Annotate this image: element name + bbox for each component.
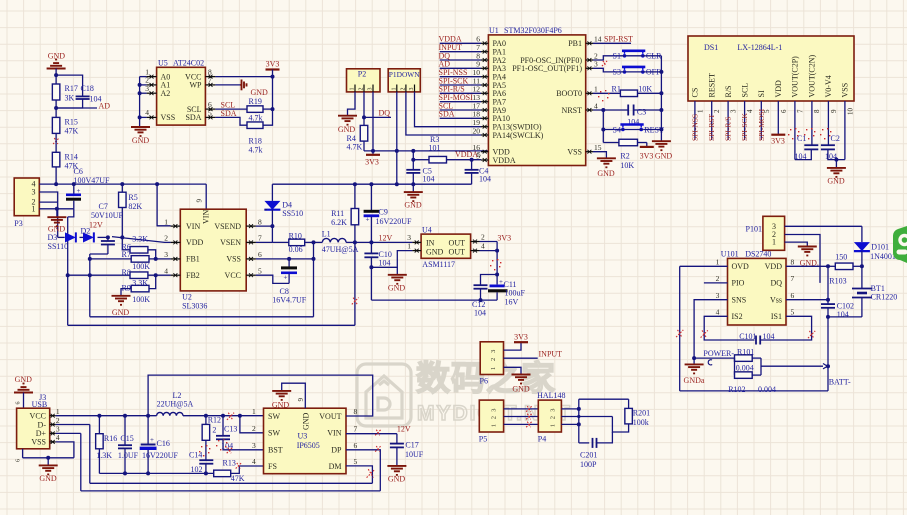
node	[312, 257, 316, 261]
svg-text:8: 8	[258, 217, 262, 226]
svg-text:S1: S1	[613, 51, 621, 60]
node DQ	[362, 115, 366, 119]
svg-text:AT24C02: AT24C02	[173, 59, 204, 68]
wire SPI-RST stub	[593, 42, 631, 44]
no-ERC marker	[375, 430, 381, 436]
svg-text:3: 3	[491, 408, 498, 411]
svg-text:1.0UF: 1.0UF	[118, 451, 139, 460]
ground P3	[56, 209, 58, 217]
resistor R16	[98, 416, 100, 434]
wire S1 row	[593, 56, 622, 60]
connector P3	[14, 178, 39, 216]
svg-text:FS: FS	[268, 462, 277, 471]
wire R3 to VDDA	[447, 159, 482, 161]
node	[479, 298, 483, 302]
svg-text:GND: GND	[827, 177, 845, 186]
svg-text:GND: GND	[112, 308, 130, 317]
resistor R3	[429, 156, 447, 163]
node	[411, 149, 415, 153]
node	[826, 364, 830, 368]
wire OVD vertical	[679, 266, 681, 391]
svg-text:BT1: BT1	[871, 284, 885, 293]
ground C17	[387, 465, 406, 467]
node	[411, 182, 415, 186]
svg-text:9: 9	[830, 109, 838, 113]
svg-text:PA14(SWCLK): PA14(SWCLK)	[493, 131, 544, 140]
wire P3 pin4	[39, 183, 56, 185]
svg-text:P1DOWN: P1DOWN	[389, 70, 420, 79]
svg-text:9: 9	[196, 199, 204, 203]
wire S3 row	[593, 68, 622, 72]
wire SW2	[240, 416, 264, 433]
no-ERC marker	[352, 298, 359, 305]
wire DQ stub	[364, 116, 391, 118]
no-ERC marker	[676, 330, 683, 337]
node	[54, 182, 58, 186]
svg-text:100P: 100P	[580, 460, 597, 469]
svg-text:C18: C18	[81, 84, 94, 93]
svg-text:SL3036: SL3036	[182, 302, 207, 311]
wire R2 row	[603, 142, 619, 144]
svg-text:1: 1	[491, 424, 498, 427]
wire gnd link U4	[371, 251, 412, 268]
svg-text:P5: P5	[479, 435, 487, 444]
svg-text:VSS: VSS	[841, 83, 850, 98]
svg-text:SDA: SDA	[439, 110, 455, 119]
capacitor C201	[579, 442, 589, 444]
svg-text:R103: R103	[829, 277, 846, 286]
svg-text:VDD: VDD	[765, 262, 783, 271]
svg-text:1: 1	[772, 238, 776, 247]
ground top-left	[47, 68, 66, 70]
svg-text:101: 101	[429, 143, 441, 152]
node	[395, 149, 399, 153]
svg-text:7: 7	[354, 425, 358, 434]
capacitor C102	[827, 266, 829, 304]
svg-text:R/S: R/S	[724, 85, 733, 97]
ground rotated WP	[240, 84, 242, 86]
connector P101	[763, 216, 785, 250]
svg-text:S4: S4	[613, 125, 621, 134]
svg-text:C16: C16	[157, 439, 170, 448]
J3 pins	[50, 415, 56, 417]
node	[826, 264, 830, 268]
node	[88, 273, 92, 277]
wire C6 gnd link	[68, 209, 74, 217]
node	[495, 273, 499, 277]
svg-text:HAL148: HAL148	[537, 391, 565, 400]
wire VCC rail	[56, 415, 157, 417]
svg-text:CS: CS	[691, 88, 700, 98]
svg-text:DQ: DQ	[379, 109, 391, 118]
wire bottom rail	[99, 472, 213, 474]
wire OUT to 3V3	[480, 241, 498, 243]
svg-text:SCL: SCL	[740, 83, 749, 98]
wire AD	[56, 107, 97, 109]
capacitor C13	[222, 416, 224, 436]
node	[55, 207, 59, 211]
svg-text:IP6505: IP6505	[297, 441, 320, 450]
svg-text:+: +	[284, 274, 288, 282]
svg-text:8: 8	[813, 109, 821, 113]
svg-text:104: 104	[837, 310, 849, 319]
svg-text:U4: U4	[422, 226, 432, 235]
svg-text:A2: A2	[161, 89, 171, 98]
svg-text:AD: AD	[99, 102, 111, 111]
wire SW node vertical	[313, 242, 315, 316]
connector P1DOWN	[388, 69, 420, 92]
svg-text:GND: GND	[338, 125, 356, 134]
wire	[263, 77, 273, 126]
wire net SPI-SCK	[440, 84, 481, 86]
svg-text:4: 4	[481, 242, 485, 251]
svg-text:1: 1	[350, 88, 356, 91]
svg-text:4.7k: 4.7k	[249, 146, 263, 155]
svg-text:VOUT(C2P): VOUT(C2P)	[791, 56, 800, 98]
svg-text:12V: 12V	[89, 220, 103, 229]
svg-text:100k: 100k	[633, 418, 649, 427]
resistor R102	[734, 358, 736, 375]
node	[312, 240, 316, 244]
wire	[55, 133, 57, 152]
svg-text:5: 5	[476, 151, 480, 160]
svg-text:2: 2	[56, 416, 60, 425]
svg-text:BATT-: BATT-	[829, 378, 851, 387]
svg-text:U1: U1	[489, 26, 499, 35]
svg-text:1: 1	[490, 367, 497, 370]
svg-text:16V4.7UF: 16V4.7UF	[272, 296, 307, 305]
wire P6 pin2 INPUT	[504, 357, 538, 359]
wire P1DOWN pin3 to PA13	[415, 92, 482, 127]
svg-text:GND: GND	[426, 247, 444, 256]
svg-text:3.3K: 3.3K	[132, 234, 148, 243]
svg-text:GND: GND	[388, 475, 406, 484]
U5 pin 8	[205, 76, 215, 78]
node	[826, 315, 830, 319]
wire NRST row	[593, 109, 628, 111]
wire P3 pin1	[39, 208, 74, 210]
svg-text:P3: P3	[14, 219, 22, 228]
no-ERC marker	[602, 61, 607, 66]
svg-text:R12: R12	[208, 415, 221, 424]
svg-text:SNS: SNS	[732, 296, 747, 305]
wire D+ rail	[81, 490, 381, 492]
svg-text:R1: R1	[612, 85, 621, 94]
svg-text:47K: 47K	[65, 127, 79, 136]
svg-text:PB1: PB1	[568, 39, 582, 48]
wire Vss row	[786, 299, 828, 301]
svg-text:16V: 16V	[505, 297, 519, 306]
svg-text:VSS: VSS	[31, 438, 46, 447]
svg-text:0.06: 0.06	[289, 245, 303, 254]
node	[601, 108, 605, 112]
svg-text:VSS: VSS	[226, 255, 241, 264]
svg-text:DS2740: DS2740	[745, 250, 771, 259]
resistor R6	[122, 237, 130, 249]
svg-text:VDDA: VDDA	[493, 156, 516, 165]
svg-text:SPI-RST: SPI-RST	[707, 113, 716, 141]
resistor R17	[52, 84, 60, 100]
wire C18 top branch	[56, 75, 83, 96]
battery BT1 CR1220	[861, 266, 863, 288]
wire net SPI-R/S	[440, 92, 481, 94]
svg-text:3V3: 3V3	[640, 152, 654, 161]
svg-text:CR1220: CR1220	[871, 293, 898, 302]
ground mid	[396, 267, 398, 275]
svg-text:9: 9	[297, 398, 305, 402]
capacitor C12	[474, 284, 488, 286]
node	[154, 257, 158, 261]
svg-text:6: 6	[354, 441, 358, 450]
svg-text:150: 150	[835, 252, 847, 261]
node	[138, 115, 142, 119]
svg-text:DP: DP	[331, 446, 342, 455]
svg-text:3: 3	[252, 441, 256, 450]
svg-text:2: 2	[716, 274, 720, 283]
svg-text:1: 1	[252, 407, 256, 416]
svg-text:104: 104	[479, 175, 491, 184]
U5 pin 6	[205, 108, 215, 110]
svg-text:C3: C3	[637, 108, 646, 117]
diode D101 1N4001	[861, 226, 863, 242]
wire IS2	[704, 316, 754, 340]
chip U101 DS2740	[728, 258, 787, 325]
svg-text:R5: R5	[128, 193, 137, 202]
wire PIO stub	[704, 282, 728, 284]
node	[826, 298, 830, 302]
chip DS1 LX-12864L-1	[688, 36, 854, 101]
node	[204, 471, 208, 475]
node	[577, 422, 581, 426]
svg-text:R16: R16	[104, 434, 117, 443]
capacitor C10	[370, 242, 372, 253]
wire	[263, 108, 273, 110]
svg-text:1: 1	[550, 424, 557, 427]
svg-text:SDA: SDA	[221, 109, 237, 118]
svg-text:5: 5	[258, 267, 262, 276]
svg-text:104: 104	[423, 175, 435, 184]
svg-text:7: 7	[791, 274, 795, 283]
wire POWER- row	[694, 357, 734, 359]
svg-text:GND: GND	[404, 201, 422, 210]
svg-text:3: 3	[730, 109, 738, 113]
node	[270, 224, 274, 228]
svg-text:SPI-SCK: SPI-SCK	[740, 112, 749, 141]
node	[577, 415, 580, 418]
no-ERC marker	[375, 446, 381, 452]
node	[123, 471, 127, 475]
svg-text:WP: WP	[190, 81, 203, 90]
wire C101 right	[760, 316, 811, 340]
node	[204, 414, 208, 418]
wire bottom rail	[680, 390, 828, 392]
svg-text:C15: C15	[120, 434, 133, 443]
svg-text:OVD: OVD	[732, 262, 750, 271]
svg-text:100V47UF: 100V47UF	[74, 176, 111, 185]
svg-text:2: 2	[359, 88, 365, 91]
no-ERC marker	[367, 469, 375, 477]
ground mid rail	[412, 184, 414, 192]
wire C12 branch	[481, 275, 498, 286]
svg-text:12V: 12V	[379, 233, 393, 242]
wire 3V3 node vertical	[496, 242, 498, 285]
svg-text:10: 10	[846, 108, 854, 116]
capacitor C9 16V220UF	[370, 184, 372, 210]
chip J3 USB	[17, 408, 50, 449]
node	[692, 356, 696, 360]
node	[46, 456, 50, 460]
wire WP	[215, 84, 240, 86]
svg-text:6: 6	[258, 250, 262, 259]
wire P1DOWN pin1 long vertical	[396, 92, 398, 184]
svg-text:10UF: 10UF	[405, 450, 424, 459]
node	[577, 407, 581, 411]
svg-text:GND: GND	[132, 136, 150, 145]
svg-text:VIN: VIN	[327, 429, 341, 438]
connector P2	[347, 69, 381, 92]
resistor R4	[363, 117, 365, 125]
svg-text:GNDa: GNDa	[684, 376, 705, 385]
node	[834, 158, 838, 162]
resistor R11	[354, 184, 356, 208]
svg-text:VOUT(C2N): VOUT(C2N)	[808, 55, 817, 98]
svg-text:7: 7	[208, 76, 212, 85]
svg-text:1: 1	[696, 109, 704, 113]
diode D2	[80, 236, 84, 238]
svg-text:3: 3	[490, 350, 497, 353]
svg-text:6.2K: 6.2K	[331, 218, 347, 227]
chip U5 AT24C02	[157, 67, 206, 125]
node	[369, 182, 373, 186]
capacitor C11 100uF	[490, 284, 505, 287]
wire net AD	[440, 67, 481, 69]
svg-text:100K: 100K	[132, 295, 150, 304]
svg-text:4.7K: 4.7K	[347, 143, 363, 152]
wire P2 pin2	[363, 92, 365, 118]
svg-text:IS2: IS2	[732, 312, 743, 321]
watermark logo house	[357, 364, 411, 426]
svg-text:SS110: SS110	[48, 242, 69, 251]
svg-text:2: 2	[481, 232, 485, 241]
node	[369, 265, 373, 269]
svg-text:0.004: 0.004	[758, 385, 776, 394]
wire	[55, 100, 57, 117]
node	[395, 182, 399, 186]
svg-text:+: +	[499, 278, 503, 286]
wire P101 pin3 to D101	[785, 225, 862, 227]
svg-text:U5: U5	[158, 59, 168, 68]
wire net SPI-NSS	[440, 76, 481, 78]
wire S4 row	[603, 129, 620, 131]
svg-text:1: 1	[164, 217, 168, 226]
svg-text:2: 2	[400, 88, 406, 91]
svg-text:3: 3	[368, 88, 374, 91]
svg-text:R9: R9	[122, 283, 131, 292]
svg-text:VSS: VSS	[567, 148, 582, 157]
node	[146, 471, 150, 475]
wire D+ pin	[56, 432, 81, 434]
wire P4 pin3	[561, 408, 578, 410]
U4 pin 1	[412, 250, 421, 252]
node R17 top	[54, 73, 58, 77]
svg-text:C101: C101	[739, 332, 756, 341]
wire P6 pin1 gnd	[504, 367, 522, 374]
svg-text:BST: BST	[268, 446, 283, 455]
node	[154, 273, 158, 277]
svg-text:Vss: Vss	[770, 296, 782, 305]
svg-text:R13: R13	[223, 458, 236, 467]
wire C18 bottom branch	[56, 99, 83, 108]
capacitor C1	[804, 144, 818, 146]
svg-text:3K: 3K	[65, 94, 75, 103]
no-ERC marker	[227, 448, 233, 454]
svg-text:10K: 10K	[638, 85, 652, 94]
wire VCC to C8	[256, 275, 289, 283]
wire SNS	[694, 300, 727, 358]
chip U3 IP6505	[264, 408, 347, 474]
wire VSEN	[256, 241, 273, 243]
svg-text:R2: R2	[620, 152, 629, 161]
wire NRST vertical	[602, 110, 604, 143]
U2 right pins	[246, 225, 256, 227]
svg-text:OUT: OUT	[449, 238, 466, 247]
svg-text:2: 2	[164, 234, 168, 243]
U5 pin 3	[147, 92, 157, 94]
wire P2 pin1 to gnd	[348, 92, 356, 116]
svg-text:SI: SI	[757, 90, 766, 97]
svg-text:6: 6	[780, 109, 788, 113]
svg-text:104: 104	[474, 309, 486, 318]
wire DP	[346, 450, 380, 491]
svg-text:47UH@5A: 47UH@5A	[322, 245, 359, 254]
capacitor C4	[471, 160, 473, 170]
svg-text:GND: GND	[39, 474, 57, 483]
svg-text:POWER-: POWER-	[703, 349, 734, 358]
wire BATT vertical	[827, 317, 829, 391]
wire VSS row	[256, 258, 314, 260]
U5 pin 4	[147, 116, 157, 118]
chip U2 SL3036	[180, 209, 246, 291]
svg-text:D3: D3	[48, 233, 58, 242]
ground U5 VSS	[139, 117, 141, 127]
wire net SPI-MOSI	[440, 101, 481, 103]
wires P5 to P4	[504, 408, 539, 410]
wire VSS U1	[593, 152, 606, 159]
svg-text:VSEND: VSEND	[214, 222, 241, 231]
capacitor C17	[396, 434, 398, 444]
connector P6	[480, 342, 503, 375]
svg-text:5: 5	[354, 457, 358, 466]
ground J3 top	[14, 392, 33, 394]
svg-text:GND: GND	[597, 169, 615, 178]
svg-text:1: 1	[407, 242, 411, 251]
no-ERC marker	[236, 463, 242, 469]
svg-text:2: 2	[490, 358, 497, 361]
node	[353, 240, 357, 244]
svg-text:+: +	[77, 187, 81, 195]
svg-text:8: 8	[354, 407, 358, 416]
svg-text:4: 4	[716, 308, 720, 317]
svg-text:SW: SW	[268, 429, 280, 438]
resistor R19	[247, 106, 263, 113]
wire C2 bottom	[828, 149, 845, 159]
wire R14 to VIN line	[55, 167, 57, 184]
svg-text:BOOT0: BOOT0	[556, 89, 582, 98]
wire R11 node to P3 rail	[354, 242, 356, 325]
svg-text:+: +	[366, 216, 370, 224]
svg-text:3: 3	[164, 250, 168, 259]
ground J3	[47, 458, 49, 466]
